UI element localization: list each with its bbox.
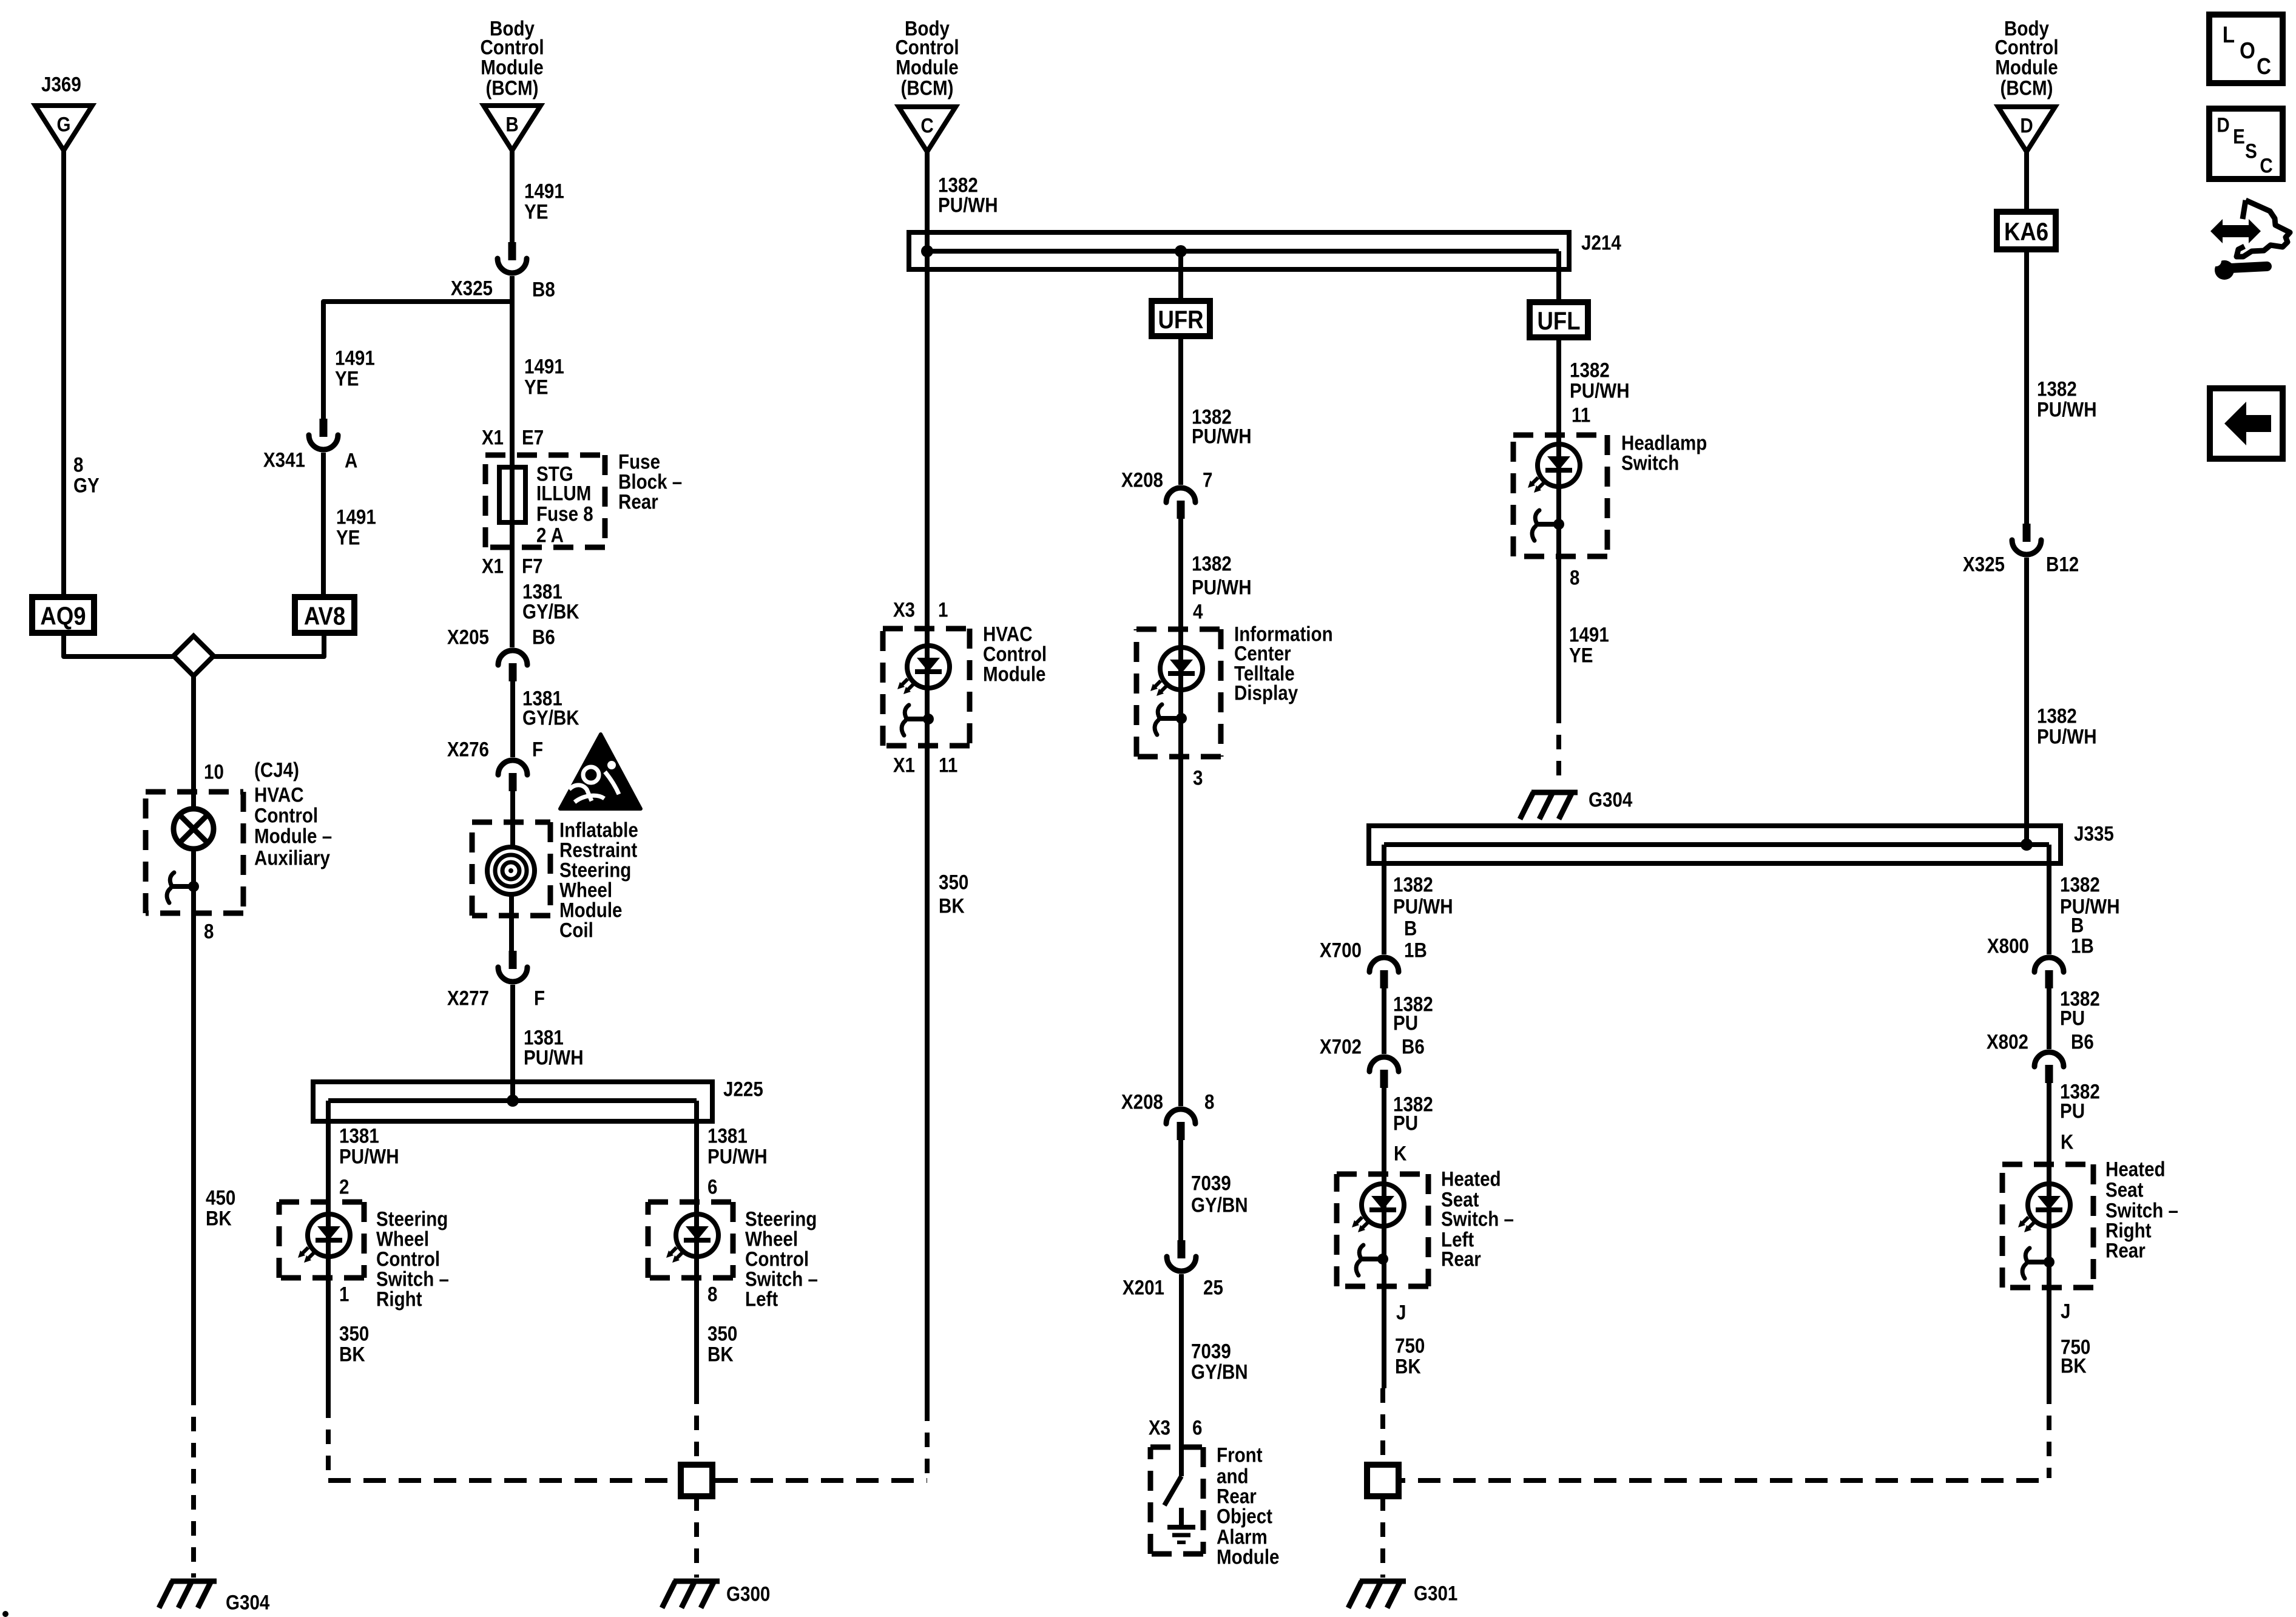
svg-text:Switch –: Switch – [1441,1207,1514,1230]
wire J335 right drop [2047,845,2051,954]
svg-text:D: D [2020,114,2033,137]
svg-text:YE: YE [335,367,359,390]
label pin 8 headlamp [1570,566,1579,589]
svg-text:D: D [2217,113,2229,137]
wire through fuse [510,468,515,647]
svg-text:K: K [2061,1130,2073,1153]
connector AV8 [295,597,354,633]
svg-text:X702: X702 [1320,1035,1362,1058]
svg-text:8: 8 [1570,566,1579,589]
wire dashed square to G301 [1380,1496,1385,1578]
label 1491 YE [524,180,564,203]
wire X325B12 to J335 [2024,558,2029,845]
svg-text:Seat: Seat [2105,1178,2144,1201]
inline connector X341 A [320,419,328,437]
svg-text:F: F [532,738,543,761]
svg-text:(BCM): (BCM) [485,76,538,100]
label 1491 YE col B [524,355,564,378]
label J225 [723,1078,763,1101]
svg-text:750: 750 [1395,1334,1425,1357]
svg-text:J: J [2061,1300,2070,1323]
label 8 GY [73,453,83,476]
ground G304 mid [1531,790,1578,795]
label pin 11 [1572,403,1590,427]
svg-text:PU/WH: PU/WH [339,1145,399,1168]
svg-text:C: C [920,114,933,137]
wire C down [925,152,930,1406]
svg-text:1491: 1491 [336,505,376,528]
inline connector X205 B6 [498,650,527,665]
hook HVAC control module [904,717,928,721]
svg-text:J: J [1396,1301,1406,1324]
svg-text:Fuse 8: Fuse 8 [536,502,593,525]
splice pack J335 [1369,826,2061,863]
label J335 [2074,822,2114,845]
icon LOC box [2209,15,2283,83]
label X208 8 [1121,1090,1163,1113]
steering wheel control switch right dashed box [279,1200,364,1205]
steering wheel control switch left dashed box [648,1200,733,1205]
label Steering Wheel Control Switch Right [376,1207,448,1230]
svg-text:450: 450 [206,1186,235,1209]
svg-text:1382: 1382 [1393,873,1433,896]
label X3 1 [893,598,915,621]
svg-text:B6: B6 [532,626,555,649]
svg-text:(CJ4): (CJ4) [254,758,299,781]
label 450 BK [206,1186,235,1209]
label 1382 PU/WH 2 [1192,552,1232,575]
label 1491 YE headlamp [1569,623,1609,646]
label 1381 PU/WH left [339,1124,379,1147]
hook headlamp switch [1535,522,1559,527]
svg-text:B6: B6 [2071,1030,2094,1053]
wire diamond down [191,676,196,809]
label 7039 GY/BN 2 [1191,1340,1231,1363]
wire dashed heated seat left to square [1380,1388,1385,1463]
svg-text:GY/BN: GY/BN [1191,1360,1248,1383]
label Headlamp Switch [1621,431,1707,454]
inline connector X325 B8 [508,242,516,260]
svg-text:BK: BK [2061,1354,2087,1377]
svg-text:Rear: Rear [618,490,658,513]
svg-text:2 A: 2 A [536,524,564,547]
svg-text:Switch: Switch [1621,451,1679,474]
svg-text:X800: X800 [1987,934,2029,957]
svg-text:4: 4 [1193,600,1203,623]
svg-text:B: B [505,113,518,136]
svg-text:Control: Control [254,804,318,827]
connector triangle J369 pin G [35,106,92,150]
svg-text:1382: 1382 [1192,552,1232,575]
inline connector X802 B6 [2034,1052,2064,1067]
label pin 1 [339,1283,349,1306]
front rear object alarm module dashed box [1150,1445,1203,1450]
icon double arrow [2210,219,2261,243]
label G304 [226,1591,270,1614]
hook information center [1157,716,1181,721]
label 350 BK left [339,1322,369,1345]
heated seat switch right rear dashed box [2002,1162,2093,1167]
svg-text:2: 2 [339,1175,349,1198]
splice pack J214 [909,232,1569,269]
svg-text:Rear: Rear [1441,1247,1481,1271]
svg-text:PU: PU [1393,1011,1418,1035]
label Fuse Block Rear [618,450,660,473]
LED HVAC control module [907,646,950,688]
svg-text:10: 10 [204,760,224,783]
svg-text:1382: 1382 [2037,377,2077,400]
inline connector X700 1B [1369,957,1399,972]
label Information Center Telltale Display [1234,623,1333,646]
label 7039 GY/BN [1191,1172,1231,1195]
inline connector X208 8 [1166,1109,1195,1124]
HVAC Control Module Auxiliary dashed box [146,789,243,795]
LED steering right [308,1214,350,1257]
svg-text:PU/WH: PU/WH [2037,725,2097,748]
svg-text:Object: Object [1217,1505,1272,1528]
svg-text:GY/BN: GY/BN [1191,1193,1248,1217]
svg-text:Module: Module [1217,1545,1279,1568]
wire X702 to heated seat switch [1382,1088,1386,1388]
label Body Control Module (BCM) D [2004,17,2049,40]
label 750 BK right [2061,1335,2090,1359]
wire dashed C to bus [925,1406,930,1478]
svg-text:1491: 1491 [524,355,564,378]
wire B down [510,150,515,242]
wire dashed right switch to square [694,1389,699,1463]
svg-text:S: S [2245,140,2257,163]
svg-text:6: 6 [707,1175,717,1198]
label X3 6 [1149,1416,1170,1439]
wire X802 to heated seat switch [2047,1083,2051,1389]
HVAC control module dashed box [883,626,970,632]
svg-text:PU/WH: PU/WH [938,194,998,217]
svg-text:UFR: UFR [1158,306,1203,334]
svg-text:1381: 1381 [339,1124,379,1147]
svg-text:350: 350 [707,1322,737,1345]
svg-text:8: 8 [73,453,83,476]
svg-text:A: A [345,449,357,472]
label Heated Seat Switch Right Rear [2105,1158,2166,1181]
svg-text:X208: X208 [1121,468,1163,491]
label G300 [726,1582,770,1605]
svg-text:350: 350 [939,871,968,894]
wire J225 left drop [326,1101,331,1403]
svg-text:Right: Right [376,1288,422,1311]
label pin K left [1394,1142,1406,1165]
wire X208-8 to X201 [1178,1140,1183,1240]
label HVAC Control Module Auxiliary [254,783,304,806]
svg-text:F: F [534,987,545,1010]
label X205 B6 [447,626,489,649]
svg-text:Module: Module [983,663,1045,686]
label pin 8 [204,920,214,943]
switch blade alarm module [1164,1476,1181,1505]
svg-text:X700: X700 [1320,939,1362,962]
label 1491 YE above AV8 [336,505,376,528]
label Steering Wheel Control Switch Left [745,1207,817,1230]
airbag warning triangle [560,734,641,809]
svg-text:8: 8 [204,920,214,943]
svg-text:Heated: Heated [2105,1158,2166,1181]
label 1381 GY/BK 2 [522,687,562,710]
svg-text:7039: 7039 [1191,1340,1231,1363]
svg-text:1: 1 [339,1283,349,1306]
label X702 B6 [1320,1035,1362,1058]
wire X208 to info center [1178,519,1183,1106]
svg-text:X201: X201 [1123,1276,1164,1299]
svg-text:(BCM): (BCM) [2000,76,2053,100]
label Heated Seat Switch Left Rear [1441,1167,1501,1190]
wire below X325 [510,276,515,468]
splice pack J225 [313,1082,712,1121]
svg-text:X802: X802 [1987,1030,2028,1053]
label 1382 PU/WH UFR [1192,405,1232,428]
inline connector X208 7 [1166,488,1195,502]
label J214 [1581,231,1621,254]
label 1382 PU right 2 [2060,1080,2100,1103]
svg-text:1382: 1382 [2037,704,2077,727]
wire J214 to UFR [1178,251,1183,303]
svg-text:UFL: UFL [1537,307,1580,336]
label pin J right [2061,1300,2070,1323]
inline connector X800 1B [2034,957,2064,972]
svg-text:HVAC: HVAC [254,783,304,806]
svg-text:BK: BK [339,1343,365,1366]
junction square G300 net [681,1465,712,1496]
svg-text:PU/WH: PU/WH [1192,425,1252,448]
connector triangle BCM pin C [899,107,956,152]
svg-text:Rear: Rear [2105,1239,2146,1262]
svg-text:3: 3 [1193,766,1203,789]
ground bus dashed right net [1383,1478,2049,1483]
label 350 BK C [939,871,968,894]
wire AQ9 to splice diamond [64,633,175,657]
hook heated seat left [1359,1257,1383,1261]
label HVAC Control Module [983,623,1033,646]
wire X700 to X702 [1382,988,1386,1054]
svg-text:G301: G301 [1414,1582,1457,1605]
svg-text:Module: Module [1995,56,2058,79]
svg-text:PU/WH: PU/WH [1192,576,1252,599]
wire coil to X277 [509,893,514,951]
svg-text:YE: YE [524,200,548,223]
svg-text:BK: BK [707,1343,734,1366]
svg-text:PU/WH: PU/WH [2037,398,2097,421]
svg-text:J214: J214 [1581,231,1621,254]
LED headlamp switch [1538,444,1580,487]
svg-text:G: G [56,113,70,136]
connector KA6 [1997,212,2056,249]
label 1382 PU/WH D2 [2037,704,2077,727]
svg-text:BK: BK [206,1207,232,1230]
svg-text:B6: B6 [1402,1035,1425,1058]
connector UFL [1530,302,1588,337]
label 350 BK right [707,1322,737,1345]
svg-text:Front: Front [1217,1443,1263,1467]
wire lamp down [191,849,196,1391]
svg-text:B: B [1404,917,1417,940]
label 1381 GY/BK [522,580,562,603]
wire branch to X341 [323,302,512,419]
svg-text:11: 11 [1572,403,1590,427]
label 10 (CJ4) [204,760,224,783]
svg-text:1B: 1B [2071,934,2094,957]
svg-text:PU: PU [1393,1112,1418,1135]
label G301 [1414,1582,1457,1605]
ground bus dashed left net [328,1478,927,1483]
wire J214 to UFL [1556,251,1561,303]
svg-text:AQ9: AQ9 [40,602,86,630]
svg-text:(BCM): (BCM) [900,76,953,100]
label X341 A [263,448,305,471]
svg-text:PU/WH: PU/WH [2060,895,2120,918]
steering wheel module coil spiral [487,847,535,894]
inline connector X702 B6 [1369,1057,1399,1072]
svg-text:11: 11 [939,754,957,777]
svg-text:Auxiliary: Auxiliary [254,846,330,869]
label pin 3 [1193,766,1203,789]
icon DESC box [2209,109,2283,179]
svg-text:YE: YE [336,526,360,549]
svg-text:L: L [2223,22,2235,48]
inline connector X201 25 [1178,1240,1186,1258]
svg-text:BK: BK [939,894,965,917]
icon connector outline [2237,200,2290,257]
wire dashed to G304 [191,1391,196,1578]
earth ground alarm module [1179,1508,1184,1526]
label Body Control Module (BCM) C [905,17,950,40]
svg-text:ILLUM: ILLUM [536,482,591,505]
inline connector X277 F [509,951,517,969]
svg-text:8: 8 [1204,1090,1214,1113]
svg-text:C: C [2257,53,2271,79]
svg-text:PU/WH: PU/WH [524,1046,584,1069]
wire X201 to alarm module [1179,1274,1184,1476]
svg-text:PU: PU [2060,1007,2085,1030]
LED steering left [676,1214,718,1257]
svg-text:J225: J225 [723,1078,763,1101]
svg-text:AV8: AV8 [304,602,345,630]
fuse block rear dashed box [485,453,605,458]
svg-text:BK: BK [1395,1355,1421,1378]
label 1381 PU/WH right [707,1124,748,1147]
svg-text:Module: Module [481,56,543,79]
label 1382 PU/WH B right [2060,873,2100,896]
label pin 4 [1193,600,1203,623]
svg-text:KA6: KA6 [2004,218,2048,246]
label X802 B6 [1987,1030,2028,1053]
wire X800 to X802 [2047,988,2051,1049]
wire J225 right drop [694,1101,699,1389]
svg-text:X1: X1 [482,426,504,449]
label 1382 PU left [1393,993,1433,1016]
wire G down [61,150,66,598]
ground G300 [674,1579,720,1584]
svg-text:X325: X325 [451,277,493,300]
wire dashed square to G300 [694,1496,699,1578]
hook heated seat right [2025,1260,2049,1264]
svg-text:Heated: Heated [1441,1167,1501,1190]
ground G304 left [171,1579,217,1584]
svg-text:YE: YE [1569,644,1593,667]
wire dashed left switch to bus [326,1403,331,1478]
svg-text:J335: J335 [2074,822,2114,845]
connector UFR [1152,301,1210,336]
label J369 [41,73,81,96]
svg-text:PU/WH: PU/WH [707,1145,768,1168]
wire J335 left drop [1382,845,1386,954]
label X1 E7 [482,426,504,449]
svg-text:1491: 1491 [524,180,564,203]
label X277 F [447,987,489,1010]
label Inflatable Restraint Steering Wheel Module Coil [559,819,638,842]
headlamp switch dashed box [1513,433,1607,438]
svg-text:G304: G304 [226,1591,270,1614]
label pin 8 [707,1283,717,1306]
label 750 BK left [1395,1334,1425,1357]
svg-text:B: B [2071,914,2084,937]
label X201 25 [1123,1276,1164,1299]
wire AV8 to splice diamond [212,633,324,657]
svg-text:7039: 7039 [1191,1172,1231,1195]
page dot bottom left [2,1611,8,1617]
svg-text:X277: X277 [447,987,489,1010]
icon back arrow box [2210,388,2283,459]
fuse STG ILLUM Fuse 8 [499,467,525,522]
svg-text:GY/BK: GY/BK [522,600,579,623]
svg-text:F7: F7 [522,555,543,578]
svg-text:350: 350 [339,1322,369,1345]
wire X276 to coil [510,791,515,849]
icon wrench [2215,260,2234,280]
svg-text:7: 7 [1203,468,1212,491]
svg-text:C: C [2260,154,2272,177]
wire X277 to J225 [510,985,515,1101]
svg-text:1382: 1382 [1570,359,1610,382]
svg-text:X1: X1 [893,754,915,777]
svg-text:PU/WH: PU/WH [1570,379,1630,402]
LED heated seat right [2028,1184,2070,1226]
label 1381 PU/WH [524,1026,564,1049]
svg-text:E7: E7 [522,426,544,449]
junction square G301 net [1367,1465,1399,1496]
svg-text:1381: 1381 [707,1124,748,1147]
svg-text:GY/BK: GY/BK [522,706,579,729]
svg-text:PU: PU [2060,1099,2085,1122]
svg-text:Left: Left [745,1288,778,1311]
svg-text:X276: X276 [447,738,489,761]
svg-text:Coil: Coil [559,919,593,942]
label Body Control Module (BCM) B [490,17,535,40]
lamp HVAC aux [174,809,214,849]
label X1 11 [893,754,915,777]
label 1382 PU left 2 [1393,1093,1433,1116]
svg-text:Display: Display [1234,681,1298,704]
svg-text:1491: 1491 [1569,623,1609,646]
svg-text:1491: 1491 [335,346,375,370]
label 1382 PU/WH UFL [1570,359,1610,382]
svg-text:1382: 1382 [2060,873,2100,896]
label X208 7 [1121,468,1163,491]
label 1491 YE branch [335,346,375,370]
inline connector X276 F [498,760,527,775]
svg-text:PU/WH: PU/WH [1393,895,1453,918]
svg-text:G304: G304 [1589,788,1633,811]
wire dashed heated seat right to bus [2047,1389,2051,1478]
label 1382 PU right [2060,987,2100,1010]
svg-text:B8: B8 [532,278,555,301]
